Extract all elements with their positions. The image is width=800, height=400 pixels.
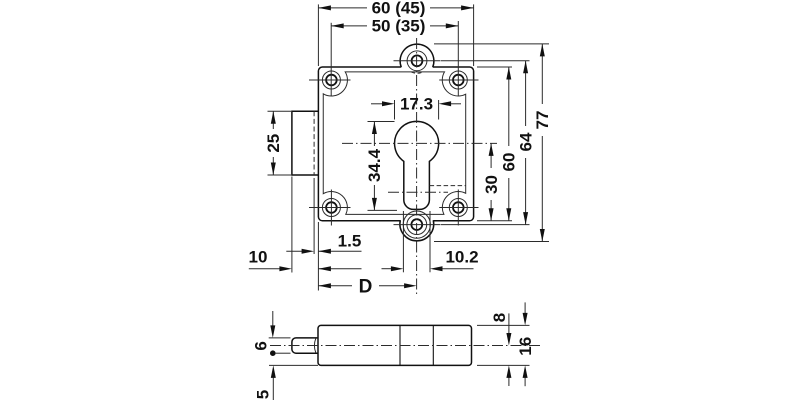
top tab hidden boss arc	[411, 72, 423, 73]
auxiliary centerline below cylinder	[388, 191, 448, 193]
dim 8 centerline to bottom	[508, 313, 510, 334]
svg-text:6: 6	[252, 341, 271, 350]
screw hole bottom-left	[326, 202, 337, 213]
svg-text:50 (35): 50 (35)	[372, 17, 426, 36]
dim 34.4 profile height	[368, 121, 395, 123]
svg-text:16: 16	[516, 337, 535, 356]
dim 10 latch projection	[249, 268, 281, 270]
lock case body outline (front view)	[318, 67, 473, 221]
svg-text:64: 64	[516, 132, 535, 151]
inner case outline with arcs around screw bosses	[323, 72, 465, 215]
dim 50 (35)	[330, 23, 332, 96]
latch housing protrusion (front view)	[292, 111, 319, 175]
bottom tab boss circle	[403, 211, 430, 238]
side view horizontal centerline	[270, 345, 542, 347]
dim 77 overall height	[434, 43, 549, 45]
svg-text:D: D	[359, 277, 373, 298]
dim 17.3 cylinder diameter	[394, 100, 396, 120]
side view tab band lines	[399, 325, 401, 365]
dim D backset	[318, 285, 352, 287]
extension lines below front view	[291, 177, 293, 273]
svg-text:5: 5	[253, 390, 272, 399]
hidden edge line right of stem	[430, 185, 466, 187]
dim 25 latch housing height	[268, 110, 292, 112]
svg-text:60: 60	[500, 153, 519, 172]
horizontal centerline of cylinder	[342, 142, 497, 144]
dim 5 below latch	[269, 364, 318, 366]
extension lines right of side view	[477, 324, 530, 326]
svg-text:60 (45): 60 (45)	[372, 0, 426, 18]
screw hole bottom-right	[453, 202, 464, 213]
svg-text:1.5: 1.5	[338, 232, 362, 251]
svg-text:10: 10	[249, 247, 268, 266]
svg-text:34.4: 34.4	[365, 148, 384, 182]
bottom fixing tab	[400, 219, 433, 222]
vertical centerline of cylinder axis	[416, 38, 418, 296]
svg-text:25: 25	[264, 134, 283, 153]
dim 60 case height	[477, 66, 512, 68]
hidden faceplate line in protrusion	[313, 111, 315, 175]
dim 30 cylinder center to case bottom	[477, 220, 512, 222]
bottom tab rivet hole	[411, 219, 422, 230]
svg-text:77: 77	[533, 111, 552, 130]
svg-text:17.3: 17.3	[400, 95, 433, 114]
latch bolt face arc	[314, 338, 315, 352]
top fixing tab (erase body edge under tab)	[401, 66, 432, 69]
dim 16 case thickness	[524, 302, 526, 314]
screw hole top-right	[453, 75, 464, 86]
euro profile cylinder hole	[395, 121, 439, 209]
latch bolt (side view)	[292, 338, 318, 353]
svg-text:8: 8	[490, 313, 509, 322]
dim 60 (45) top	[317, 4, 319, 66]
top tab rivet hole	[412, 55, 423, 66]
screw hole top-left	[326, 75, 337, 86]
svg-text:30: 30	[482, 175, 501, 194]
dim 6 latch height	[269, 337, 291, 339]
svg-text:10.2: 10.2	[445, 247, 478, 266]
dim 64 tab hole centers	[441, 60, 530, 62]
dim 1.5 faceplate offset	[286, 250, 303, 252]
dim 10.2 stem width	[382, 268, 393, 270]
side view lock case	[318, 325, 472, 365]
